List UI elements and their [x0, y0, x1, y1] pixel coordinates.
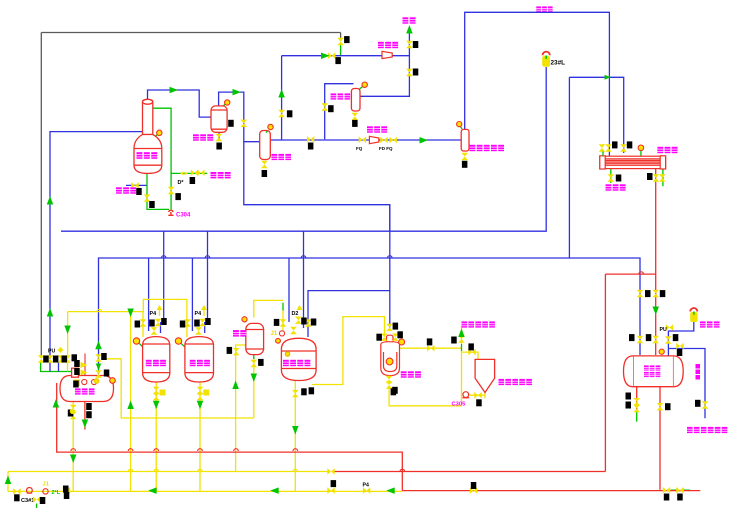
valve H2 left drop: [95, 370, 102, 377]
valve buffer2 bottom: [352, 113, 359, 120]
valve bottom hdr1: [327, 468, 334, 475]
valve tank3 feed stem: [280, 319, 287, 326]
tag bottom hdr2 x66: [64, 492, 70, 499]
tag evap bottom: [392, 387, 398, 394]
tag tank1 a: [135, 321, 141, 328]
vessel crude oil hopper: [475, 359, 495, 392]
wire wash-gas buffer overhead: [465, 12, 610, 129]
wire header H2: [99, 258, 641, 374]
drain funnel C304: [168, 210, 173, 215]
wire crude riser lower: [461, 351, 463, 406]
arrow tank1 drain down: [153, 401, 160, 410]
wire bottom left riser: [7, 472, 9, 492]
wire tank3 feed b: [303, 231, 305, 328]
wire red cross header: [605, 273, 655, 275]
relief valve 23#L: [543, 52, 550, 56]
wire green stub condenser left: [602, 152, 604, 157]
wire tank2 drain: [199, 382, 201, 491]
arrow tank3 drain down: [292, 426, 299, 435]
vessel desolventizer (horizontal): [60, 368, 114, 401]
label storage tank 2: [190, 360, 210, 366]
yellow spray arrow b: [81, 370, 88, 376]
wire gray stub to valve: [340, 33, 342, 42]
tag crude riser: [468, 343, 474, 350]
valve bottom hdr2 a: [13, 488, 20, 495]
manhole tank1: [133, 338, 139, 344]
tag destank drain b: [86, 403, 92, 410]
valve C301 outlet: [33, 496, 40, 503]
wire desolventizer feed green L: [41, 362, 72, 372]
vessel evaporator: [381, 335, 400, 375]
tag solvent right top: [673, 334, 679, 341]
arrow destank drain down: [70, 455, 77, 464]
valve red drop x655: [652, 290, 659, 297]
yellow box on desolventizer: [74, 380, 81, 387]
wire stem water separator: [222, 103, 227, 108]
tag feed row c: [62, 356, 68, 363]
tag H2 drop: [104, 370, 110, 377]
valve blue drop x640: [637, 290, 644, 297]
label water separator: [193, 134, 213, 140]
vessel water separator V301: [211, 106, 227, 132]
label to crude oil tank: [462, 321, 495, 327]
wire stem washgas buffer: [459, 124, 462, 129]
pump vacuum P301: [382, 51, 392, 58]
wire condenser vent stem: [640, 151, 642, 157]
condenser vent circle: [638, 145, 644, 151]
wire evaporator feed drop: [389, 205, 391, 328]
wire green stub below gray valve: [340, 45, 342, 56]
wire condenser to solvent tank: [655, 168, 657, 355]
tag tank3 right: [309, 387, 315, 394]
valve evaporator bottom a: [386, 376, 393, 383]
tag feed row d: [72, 354, 78, 361]
wire crude riser branch to funnel: [462, 352, 479, 359]
solvent tank dome: [659, 349, 664, 354]
svg-text:P4: P4: [363, 483, 369, 489]
valve condenser left top b: [605, 144, 612, 151]
tag evap feed: [393, 323, 399, 330]
wire mixed oil to evaporator: [312, 317, 385, 385]
wire yellow header to tanks: [67, 312, 69, 359]
wire solvent tank right drain: [659, 387, 661, 490]
junction hop drains over red: [154, 449, 159, 451]
svg-text:C305: C305: [452, 402, 467, 408]
wire stem tank2 manhole: [179, 341, 185, 347]
sight glass water separator: [225, 100, 230, 105]
tag balance line: [695, 400, 701, 407]
valve tower circ loop: [168, 187, 175, 194]
wire V303 top link: [254, 300, 283, 317]
junction hop blue over H2 d: [388, 256, 393, 258]
wire tank1 vent stub: [159, 306, 161, 316]
valve evaporator feed: [386, 324, 393, 331]
tag bottom hdr1 x331: [331, 480, 337, 487]
manhole mixed oil tank: [279, 331, 284, 336]
small circle mixed tank: [285, 352, 289, 356]
valve feed row c: [58, 355, 65, 362]
label buffer tank 2: [331, 93, 351, 99]
valve feed row d: [64, 355, 71, 362]
label compressor: [367, 126, 387, 132]
manhole des1: [82, 379, 87, 384]
yellow arrow tank2 vent: [201, 305, 207, 310]
valve tank1 top b: [155, 319, 162, 326]
manhole des4: [94, 379, 99, 384]
wire stem tank1 manhole: [137, 341, 143, 347]
valve bottom right a: [663, 487, 670, 494]
tag x640 drop: [645, 290, 651, 297]
label solvent tank: [644, 365, 660, 370]
svg-text:FD FQ: FD FQ: [379, 146, 393, 151]
manhole des2: [92, 379, 97, 384]
svg-text:P4: P4: [195, 311, 202, 317]
svg-text:P4: P4: [150, 311, 157, 317]
valve bottom hdr2 b: [63, 487, 70, 494]
tag riser: [287, 110, 293, 117]
vessel mixed oil tank: [281, 338, 316, 380]
arrow vacuum line: [321, 52, 330, 59]
arrow destank red up: [53, 399, 60, 408]
valve tank1 drain: [153, 387, 160, 394]
tag cond left: [612, 141, 618, 148]
tag x640 lower: [629, 334, 635, 341]
svg-text:PU: PU: [48, 349, 55, 355]
valve condenser right top: [620, 144, 627, 151]
svg-text:23#L: 23#L: [551, 60, 566, 67]
tag C301: [40, 497, 46, 504]
svg-text:2*L: 2*L: [52, 490, 61, 496]
label evaporator: [401, 371, 421, 377]
tag tank3 drain: [301, 388, 307, 395]
wire yellow drop x130: [130, 312, 132, 492]
valve external drain: [131, 182, 138, 189]
junction hop drain2 over red: [198, 449, 203, 451]
label buffer tank 1: [272, 154, 292, 160]
wire tank3 drain: [294, 381, 296, 492]
label solvent tank row2: [644, 372, 660, 377]
tag feed row a: [43, 356, 49, 363]
valve balance line: [702, 401, 709, 408]
arrow destank stub down: [82, 420, 89, 429]
valve tank3 top b: [295, 317, 302, 324]
arrow vent up: [406, 25, 413, 34]
wire buffer tank 2 outlet to vent: [360, 30, 409, 96]
tag tank2 c: [205, 318, 211, 325]
arrow yellow x67 down: [64, 326, 71, 335]
wire tank2 vent stub: [203, 306, 205, 316]
valve vacuum line left: [328, 52, 335, 59]
arrow bottom riser up: [5, 476, 12, 485]
valve buffer1 bottom: [261, 161, 268, 168]
valve condenser right stub b: [659, 174, 666, 181]
wire gray left downcomer: [40, 33, 42, 356]
wire tower circulation loop: [153, 108, 171, 209]
label balance line to boiler: [687, 427, 727, 433]
vessel spray tower T301: [134, 99, 162, 173]
tag watersep line: [228, 120, 234, 127]
label vent to atmosphere: [403, 17, 416, 23]
wire mixed oil tank feed yellow: [282, 311, 284, 332]
manhole tank2: [175, 338, 181, 344]
valve vent stack lower: [406, 69, 413, 76]
tag gray valve: [344, 36, 350, 43]
circle mixed tank J1: [276, 338, 281, 343]
wire green stub C301: [36, 504, 38, 509]
tag V303 side: [227, 347, 233, 354]
valve evaporator neck R: [392, 334, 399, 341]
valve tower drain: [144, 194, 151, 201]
junction hop yellow over blue x99: [97, 309, 102, 311]
svg-text:FQ: FQ: [356, 146, 363, 151]
arrow watersep line: [233, 89, 242, 96]
wire flame arrester link: [668, 322, 693, 356]
valve tank2 top c: [195, 327, 202, 334]
tag washgas bottom: [462, 161, 468, 168]
tag cond right stub: [647, 173, 653, 180]
wire tank1 feed a: [148, 258, 150, 331]
wire yellow header horizontal: [68, 299, 187, 337]
tag tower circ: [175, 193, 181, 200]
valve tank3 top c: [305, 319, 312, 326]
wire external water supply: [171, 172, 207, 174]
tag ext water: [190, 177, 196, 184]
tag funnel drain: [476, 399, 482, 406]
tag tank2 a: [180, 321, 186, 328]
wire riser to vacuum line: [281, 56, 283, 141]
valve feed row b: [47, 355, 54, 362]
wire mixed oil tank feed stem: [282, 303, 284, 311]
svg-text:PU: PU: [660, 327, 667, 333]
wire destank drain: [72, 402, 74, 491]
valve ext water a: [191, 170, 198, 177]
tag bottom right a: [664, 494, 670, 501]
junction hop blue over H2 b: [205, 256, 210, 258]
wire yellow drop to tank1: [142, 312, 144, 337]
wire bottom header 1 red part: [333, 471, 605, 473]
valve solvent top right: [665, 336, 672, 343]
tag tank1 c: [161, 318, 167, 325]
red internal feed column desolventizer: [84, 354, 86, 376]
svg-text:J1: J1: [271, 331, 278, 337]
tag J1 right: [63, 486, 69, 493]
vessel storage tank 1: [143, 337, 170, 382]
junction hop drain3 over red: [234, 449, 239, 451]
tag tank3 c: [311, 319, 317, 326]
label drain port: [606, 184, 626, 190]
valve bottom right b: [676, 487, 683, 494]
tag destank drain a: [68, 410, 74, 417]
arrow tower line: [170, 87, 179, 94]
tag destank top: [73, 381, 79, 388]
tag tank3 a: [274, 319, 280, 326]
arrow red x655 down: [652, 307, 659, 316]
valve tank2 top a: [184, 319, 191, 326]
valve riser top: [278, 110, 285, 117]
valve evaporator neck L: [381, 334, 388, 341]
pump C301: [27, 488, 33, 494]
junction hop drains over yellow471 c: [293, 469, 298, 471]
tag solvent left drain: [626, 402, 632, 409]
wire destank red loop: [57, 383, 403, 491]
valve crude top: [468, 349, 475, 356]
label crude oil hopper: [499, 379, 532, 385]
tag vent lower: [413, 69, 419, 76]
wire destank bottom stub: [84, 400, 86, 430]
wire condenser top-right feed: [569, 77, 623, 153]
wire feed stub blue b: [58, 362, 60, 371]
valve evaporator bottom b: [386, 381, 393, 388]
wire branch to buffer tank 1: [244, 141, 260, 143]
arrow x130 up: [127, 401, 134, 410]
wire tank1 feed b lower: [160, 322, 162, 333]
wire evaporator outlet: [400, 347, 462, 349]
wire solvent tank left drain stub: [636, 412, 638, 422]
circle J1 bottom: [43, 489, 48, 494]
wire branch to mixed oil tank: [308, 291, 390, 337]
tag spray b: [74, 368, 80, 375]
wire solvent tank left drain: [636, 387, 638, 412]
tag cond right: [627, 141, 633, 148]
label external water supply: [211, 172, 231, 178]
wire stem buffer1: [266, 131, 268, 133]
wire condenser drain stub: [610, 168, 612, 183]
yellow sparkle tank3: [297, 305, 303, 310]
junction hop x130 over red: [128, 449, 133, 451]
wire tank1 feed b: [163, 231, 165, 322]
tag vent upper: [413, 41, 419, 48]
svg-text:J1: J1: [43, 482, 50, 488]
wire funnel tip drain: [470, 393, 485, 399]
wire bottom header 2 red part: [402, 490, 700, 492]
valve solvent right drain: [657, 403, 664, 410]
sight glass washgas: [457, 122, 462, 127]
label flame arrester: [700, 321, 720, 327]
svg-text:C304: C304: [176, 213, 191, 219]
manhole V303: [242, 317, 247, 322]
yellow spray arrow a: [81, 362, 88, 368]
wire bottom header 1 yellow part: [8, 471, 329, 473]
tag watersep top: [216, 143, 222, 150]
arrow V303 drain down: [251, 374, 257, 383]
valve evap outlet: [427, 345, 434, 352]
label condenser: [657, 147, 677, 153]
junction hop red over blue x641: [639, 272, 644, 274]
valve bottom hdr2 d: [363, 487, 370, 494]
wire crude riser green stub: [461, 344, 463, 351]
tag cond drain: [616, 175, 622, 182]
tag spray a: [74, 360, 80, 367]
wire tank3 feed a: [288, 258, 290, 322]
wire spray tower overhead to water separator: [148, 90, 212, 117]
tag evap outlet: [427, 338, 433, 345]
arrow x130 down upper: [127, 309, 134, 318]
wire H2 drop from condenser leg: [568, 77, 570, 258]
valve tank2 top b: [199, 319, 206, 326]
valve funnel drain a: [474, 392, 481, 399]
wire green seg bottom right: [671, 489, 690, 491]
arrow junction tick: [605, 75, 611, 80]
junction hop drains over yellow471 b: [198, 469, 203, 471]
valve tank2 drain b: [197, 393, 204, 400]
tag H2 drop upper: [101, 353, 107, 360]
vessel wash gas buffer V304: [461, 129, 469, 151]
vessel buffer tank V302a: [260, 131, 271, 160]
junction hop blue over H2 c: [301, 256, 306, 258]
yellow diamond above feed row: [58, 347, 64, 353]
valve destank drain a: [70, 405, 77, 412]
arrow hdr2 left b: [386, 487, 395, 494]
tag tank1 b: [149, 320, 155, 327]
wire crude oil riser: [461, 326, 463, 344]
wire V303 side drain: [236, 345, 247, 472]
valve water sep top line: [241, 120, 248, 127]
valve water sep bottom: [216, 134, 223, 141]
tag y418 line: [391, 388, 397, 395]
wire compressor suction/discharge line: [270, 139, 461, 141]
valve PU link: [666, 324, 673, 331]
tag destank drain c: [86, 411, 92, 418]
valve bottom hdr2 e: [470, 487, 477, 494]
valve compressor line b: [359, 136, 366, 143]
valve red x655 lower: [652, 336, 659, 343]
mini arrows ext water: [180, 171, 188, 175]
label mixed oil tank: [283, 360, 310, 366]
tag solvent dome: [677, 349, 683, 356]
valve destank drain b: [70, 412, 77, 419]
label DN spec vertical: [696, 364, 701, 380]
valve V303 side: [233, 348, 240, 355]
tag tank2 b: [194, 320, 200, 327]
valve blue x640 lower: [637, 336, 644, 343]
svg-text:C3#1: C3#1: [21, 498, 34, 504]
valve solvent circuit: [676, 343, 683, 350]
svg-text:D2: D2: [292, 311, 299, 317]
valve compressor line a: [307, 136, 314, 143]
tag vacuum left: [335, 57, 341, 64]
arrow blue left x50 a: [47, 196, 54, 205]
label vacuum pump: [378, 42, 398, 48]
wire stem deswtank: [107, 381, 114, 385]
label spray tower: [137, 152, 158, 159]
label wash gas buffer: [470, 145, 505, 151]
tag bottom right b: [677, 494, 683, 501]
wire tank2 feed b: [207, 231, 209, 322]
wire tank2 feed a: [191, 258, 193, 331]
wire tank1 drain: [155, 382, 157, 491]
valve tank2 drain: [197, 387, 204, 394]
yellow tag tank2 drain: [203, 390, 209, 396]
arrow hdr2 left a: [270, 487, 279, 494]
tag solvent left drain b: [626, 393, 632, 400]
tag tower drain: [149, 201, 155, 208]
tag buffer1 bottom: [262, 170, 268, 177]
arrow crude riser up: [458, 329, 465, 338]
evaporator inner circle: [386, 358, 393, 365]
arrow blue left x50 b: [47, 308, 54, 317]
tag buffer2 bottom: [352, 120, 358, 127]
junction hop drains over yellow471 a: [154, 469, 159, 471]
wire external drain stub: [126, 184, 147, 186]
tag x655 lower: [646, 334, 652, 341]
arrow washgas line: [420, 137, 429, 144]
junction hop x74 over red451: [71, 449, 76, 451]
valve solvent left drain b: [633, 405, 640, 412]
yellow tag tank1 drain: [160, 390, 166, 396]
wire gray supply header top: [41, 32, 340, 34]
sight glass buffer2: [362, 82, 367, 87]
wire feed stub yellow: [67, 362, 69, 371]
